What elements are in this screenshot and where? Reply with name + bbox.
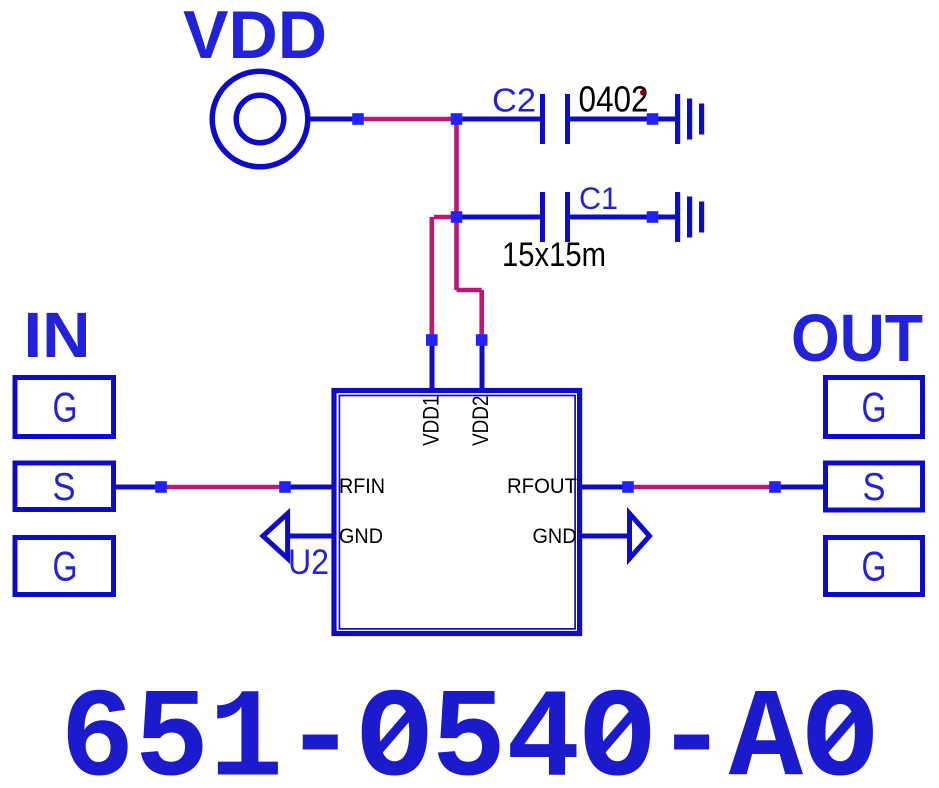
svg-text:S: S	[53, 466, 76, 509]
svg-text:651-O54O-AO: 651-O54O-AO	[60, 670, 877, 788]
svg-text:OUT: OUT	[791, 301, 923, 376]
svg-text:C2: C2	[492, 82, 536, 119]
svg-text:G: G	[53, 384, 78, 431]
svg-text:U2: U2	[288, 543, 329, 582]
svg-text:VDD1: VDD1	[419, 396, 444, 446]
svg-text:G: G	[53, 543, 78, 590]
svg-text:G: G	[862, 384, 887, 431]
svg-text:GND: GND	[339, 525, 383, 548]
svg-text:C1: C1	[579, 180, 618, 216]
svg-text:IN: IN	[24, 299, 91, 371]
svg-text:VDD2: VDD2	[468, 396, 493, 446]
svg-text:RFOUT: RFOUT	[507, 475, 577, 498]
svg-text:S: S	[863, 466, 886, 509]
svg-text:G: G	[862, 543, 887, 590]
svg-text:0402: 0402	[579, 79, 649, 120]
svg-text:GND: GND	[533, 525, 577, 548]
svg-text:15x15m: 15x15m	[502, 236, 606, 274]
svg-text:RFIN: RFIN	[339, 475, 385, 498]
svg-text:VDD: VDD	[183, 0, 327, 73]
